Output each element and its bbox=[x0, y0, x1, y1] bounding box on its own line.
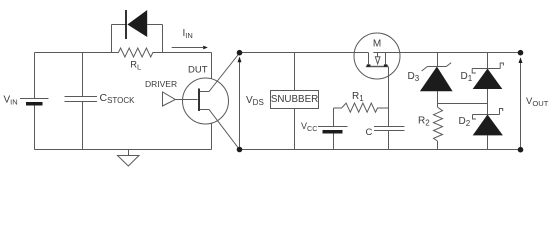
svg-text:C: C bbox=[366, 127, 373, 138]
svg-text:RL: RL bbox=[130, 60, 141, 72]
svg-text:IIN: IIN bbox=[183, 28, 193, 40]
svg-text:CSTOCK: CSTOCK bbox=[100, 92, 136, 105]
svg-text:D3: D3 bbox=[408, 71, 420, 83]
svg-text:VCC: VCC bbox=[301, 121, 317, 133]
svg-text:DRIVER: DRIVER bbox=[145, 79, 177, 89]
svg-text:M: M bbox=[373, 39, 381, 50]
svg-text:D1: D1 bbox=[461, 71, 473, 83]
svg-text:D2: D2 bbox=[459, 116, 471, 128]
svg-text:VIN: VIN bbox=[4, 94, 18, 106]
svg-text:DUT: DUT bbox=[188, 65, 208, 76]
svg-text:R2: R2 bbox=[418, 116, 430, 128]
svg-text:VDS: VDS bbox=[246, 95, 264, 107]
svg-text:R1: R1 bbox=[352, 91, 364, 103]
svg-text:VOUT: VOUT bbox=[526, 96, 549, 108]
svg-text:SNUBBER: SNUBBER bbox=[271, 94, 318, 105]
